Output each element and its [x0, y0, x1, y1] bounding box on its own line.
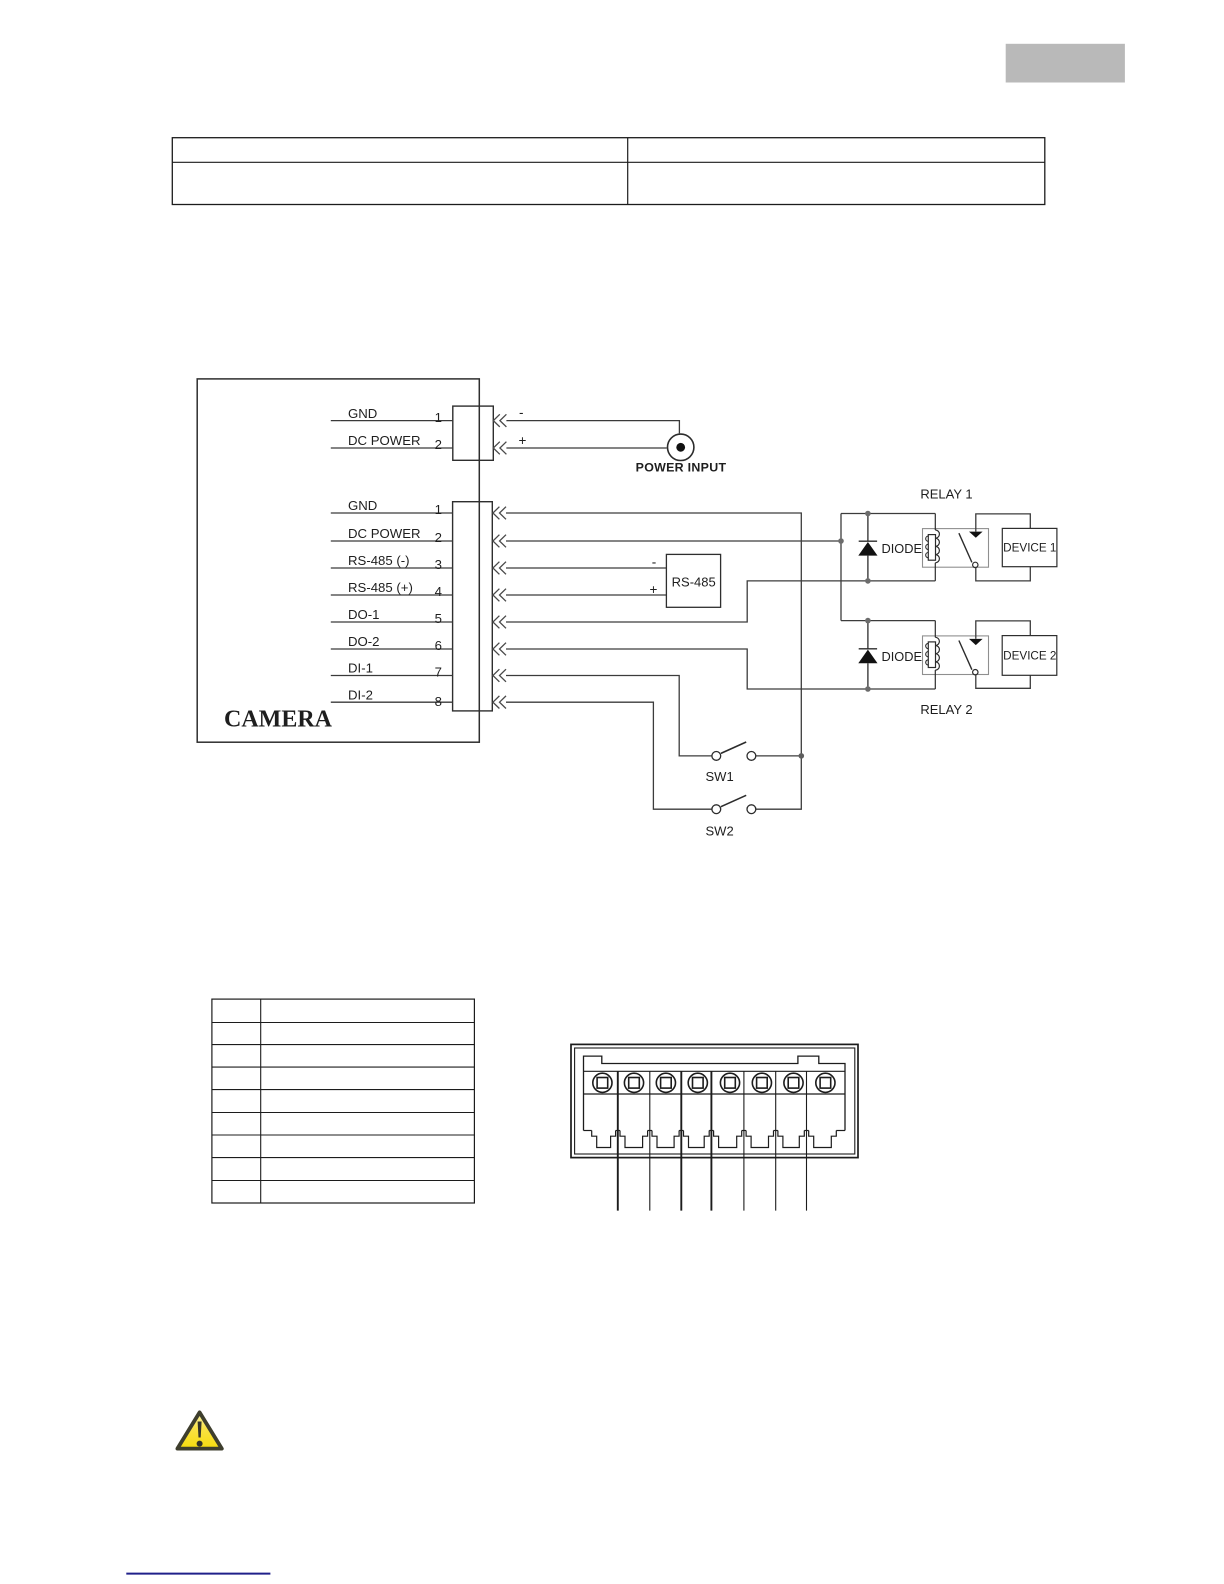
svg-text:1: 1: [435, 502, 442, 517]
svg-text:DEVICE 2: DEVICE 2: [1003, 649, 1056, 662]
svg-text:DIODE: DIODE: [882, 541, 923, 556]
wire: DC POWER to relay rail: [506, 540, 841, 542]
junction dot: relay 1 bottom: [865, 578, 871, 584]
pin J2-4 chevron: [493, 589, 506, 602]
relay 1 top rail wire: [841, 513, 935, 515]
svg-text:DIODE: DIODE: [882, 649, 923, 664]
pin J2-8 stub wire: [331, 701, 453, 703]
footer rule: [126, 1573, 270, 1575]
svg-text:SW2: SW2: [706, 824, 734, 839]
wire: RS-485 plus: [506, 594, 666, 596]
relay K1 outline box: [923, 529, 989, 568]
connector body outline: [584, 1056, 846, 1130]
wire: relay 1 contact to device 1: [976, 514, 1031, 532]
connector housing outer shell: [571, 1044, 858, 1157]
svg-text:RELAY 2: RELAY 2: [920, 702, 972, 717]
top table border: [172, 138, 1045, 205]
pin J2-7 stub wire: [331, 675, 453, 677]
svg-text:GND: GND: [348, 498, 377, 513]
svg-text:4: 4: [435, 584, 442, 599]
svg-text:7: 7: [435, 665, 442, 680]
svg-text:DO-1: DO-1: [348, 607, 380, 622]
wire: relay 2 contact to device 2: [976, 621, 1031, 639]
wire: DO-2 to relay 2 coil: [506, 649, 935, 689]
RS-485 box U1: [666, 554, 720, 607]
relay K2 switch: [959, 639, 983, 675]
top table column divider: [627, 138, 629, 205]
switch SW2: [712, 795, 756, 813]
connector housing inner shell: [575, 1048, 855, 1154]
relay K1 switch: [959, 532, 983, 568]
junction dot: relay 1 top: [865, 511, 871, 517]
svg-text:-: -: [519, 405, 524, 420]
relay K2 outline box: [923, 636, 989, 675]
wire: GND net down to SW2: [756, 756, 802, 809]
redaction block top right: [1006, 44, 1125, 83]
connector J1 (2-pin power header): [453, 406, 494, 460]
junction dot: DC power tap: [838, 538, 844, 544]
wire: SW1 output to GND net: [756, 755, 802, 757]
relay supply rail vertical: [840, 514, 842, 621]
junction dot: switches to GND: [799, 753, 805, 759]
power jack barrel connector: [668, 434, 694, 460]
svg-text:+: +: [519, 433, 527, 448]
pin J2-8 chevron: [493, 696, 506, 709]
pin J2-3 chevron: [493, 562, 506, 575]
relay K1 coil: [926, 514, 940, 581]
pin J2-1 stub wire: [331, 512, 453, 514]
wire: GND net to switches common: [506, 513, 801, 756]
svg-text:+: +: [650, 582, 658, 597]
svg-text:DC POWER: DC POWER: [348, 526, 421, 541]
svg-text:POWER INPUT: POWER INPUT: [636, 461, 727, 475]
device 2 box: [1002, 636, 1057, 676]
pin J2-2 stub wire: [331, 540, 453, 542]
camera box: [197, 379, 479, 742]
pin J1-1 stub wire: [331, 420, 453, 422]
pin table column divider: [260, 999, 262, 1203]
wire: DO-1 to relay 1 coil: [506, 581, 935, 622]
svg-text:5: 5: [435, 611, 442, 626]
svg-text:RS-485: RS-485: [672, 574, 716, 589]
pin J1-2 chevron: [493, 442, 506, 455]
wire: DI-2 to SW2: [506, 702, 712, 809]
svg-text:2: 2: [435, 437, 442, 452]
pin J2-7 chevron: [493, 669, 506, 682]
wire: relay 2 contact bottom to device 2: [976, 675, 1031, 688]
device 1 box: [1002, 528, 1057, 566]
svg-text:DC POWER: DC POWER: [348, 433, 421, 448]
switch SW1: [712, 742, 756, 760]
connector pin band lines: [584, 1070, 846, 1072]
junction dot: relay 2 top: [865, 618, 871, 624]
svg-text:-: -: [652, 555, 657, 570]
svg-text:CAMERA: CAMERA: [224, 707, 333, 733]
pin J2-1 chevron: [493, 507, 506, 520]
svg-text:GND: GND: [348, 406, 377, 421]
connector J2 (8-pin I/O header): [453, 502, 493, 711]
pin J2-6 chevron: [493, 643, 506, 656]
pin J1-2 stub wire: [331, 447, 453, 449]
top table row divider: [172, 161, 1045, 163]
wire: RS-485 minus: [506, 567, 666, 569]
pin table row dividers: [212, 1023, 475, 1181]
diode D2: [858, 621, 877, 689]
pin J2-5 chevron: [493, 616, 506, 629]
svg-text:3: 3: [435, 557, 442, 572]
svg-text:2: 2: [435, 530, 442, 545]
wire: power minus: [506, 421, 679, 434]
pin table border: [212, 999, 475, 1203]
connector pin contacts (circle with square): [593, 1073, 835, 1092]
connector pin leader lines: [617, 1071, 619, 1210]
relay 2 top rail wire: [841, 620, 935, 622]
junction dot: relay 2 bottom: [865, 686, 871, 692]
svg-text:6: 6: [435, 638, 442, 653]
pin J2-5 stub wire: [331, 621, 453, 623]
svg-text:DI-1: DI-1: [348, 661, 373, 676]
svg-text:DEVICE 1: DEVICE 1: [1003, 542, 1056, 555]
svg-text:DI-2: DI-2: [348, 687, 373, 702]
wire: power plus: [506, 447, 666, 449]
pin J1-1 chevron: [493, 414, 506, 427]
relay K2 coil: [926, 621, 940, 689]
pin J2-4 stub wire: [331, 594, 453, 596]
svg-text:DO-2: DO-2: [348, 634, 380, 649]
connector chamber slots (bottom cups): [584, 1131, 846, 1148]
pin J2-3 stub wire: [331, 567, 453, 569]
wire: DI-1 to SW1: [506, 676, 712, 756]
svg-text:SW1: SW1: [706, 769, 734, 784]
svg-text:8: 8: [435, 694, 442, 709]
pin J2-6 stub wire: [331, 648, 453, 650]
svg-text:RS-485 (-): RS-485 (-): [348, 553, 410, 568]
svg-text:1: 1: [435, 410, 442, 425]
svg-text:RELAY 1: RELAY 1: [920, 486, 972, 501]
diode D1: [858, 514, 877, 581]
wire: relay 1 contact bottom to device 1: [976, 567, 1031, 581]
svg-text:RS-485 (+): RS-485 (+): [348, 580, 413, 595]
pin J2-2 chevron: [493, 535, 506, 548]
